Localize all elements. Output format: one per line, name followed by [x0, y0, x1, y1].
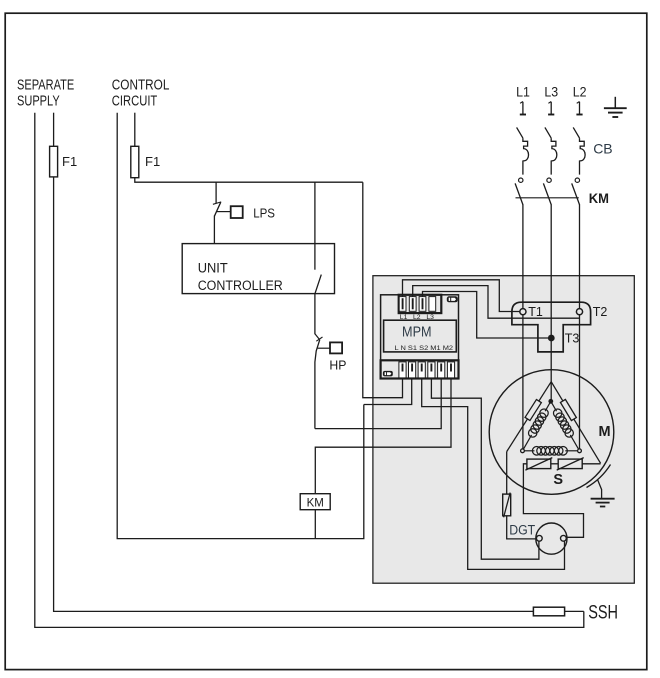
wire LPS to pressure element — [217, 211, 231, 213]
label L1 L2 L3 pins — [400, 314, 434, 321]
wire controller out to HP — [314, 293, 316, 334]
svg-text:KM: KM — [589, 190, 609, 206]
wire internal protector right leg — [551, 382, 600, 464]
svg-text:KM: KM — [307, 497, 324, 509]
wire motor frame to earth — [587, 465, 611, 499]
MPM top terminal strip — [399, 295, 442, 313]
label KM — [307, 497, 324, 509]
motor M body — [489, 370, 614, 495]
wire KM linkage bar — [516, 197, 579, 199]
svg-text:T3: T3 — [565, 332, 580, 346]
wire thermistor to DGT left terminal — [507, 516, 536, 539]
wire control-circuit right line upper — [134, 113, 136, 147]
svg-text:MPM: MPM — [402, 324, 432, 341]
label F1 — [145, 154, 160, 169]
fuse F1 (control circuit) — [131, 146, 139, 177]
unit controller box U1 — [182, 244, 334, 294]
motor winding bottom (coil) — [523, 447, 580, 456]
svg-text:SUPPLY: SUPPLY — [17, 94, 60, 110]
ground (motor frame) — [591, 499, 615, 507]
thermistor S element 2 — [557, 458, 584, 471]
pressure switch LPS element — [231, 206, 243, 218]
winding left vertex — [521, 449, 525, 453]
label MPM — [402, 324, 432, 341]
circuit breaker CB pole L1 — [517, 127, 529, 174]
MPM bottom connector icon — [383, 371, 393, 377]
compressor terminal box (shaded enclosure) — [373, 276, 634, 584]
wire phase L2 to T2 and motor — [579, 204, 581, 451]
circuit breaker CB pole L2 — [573, 127, 585, 174]
svg-text:L1: L1 — [516, 84, 530, 99]
label L N S1 S2 M1 M2 — [395, 345, 454, 352]
MPM top terminal slot 2 — [409, 297, 416, 312]
svg-text:L N S1 S2 M1 M2: L N S1 S2 M1 M2 — [395, 345, 454, 352]
svg-text:T2: T2 — [593, 305, 608, 319]
wire protector leg to discharge thermistor — [506, 452, 508, 495]
svg-text:F1: F1 — [145, 154, 160, 169]
MPM bottom terminal slot 3 — [418, 362, 425, 378]
wire sensors middle link — [551, 463, 558, 465]
motor winding right (coil) — [551, 401, 580, 451]
terminal T2 — [576, 309, 582, 315]
wire rail drop to MPM L terminal — [363, 182, 403, 398]
svg-text:F1: F1 — [62, 154, 77, 169]
wire sensors right link — [582, 463, 600, 465]
MPM bottom terminal slot 4 — [428, 362, 435, 378]
MPM top connector icon — [447, 296, 458, 302]
wire separate-supply right line upper — [53, 113, 55, 147]
label T3 — [565, 332, 580, 346]
label S — [553, 472, 563, 488]
protector element right — [560, 399, 576, 420]
motor winding left (coil) — [523, 401, 551, 451]
label HP — [329, 357, 346, 372]
wire control line to main rail — [135, 178, 363, 183]
protector element left — [525, 400, 541, 421]
gauge DGT body — [536, 523, 567, 554]
svg-text:SEPARATE: SEPARATE — [17, 78, 74, 94]
svg-text:HP: HP — [329, 357, 346, 372]
terminal T1 — [520, 309, 526, 315]
contactor KM pole L2 — [572, 178, 580, 205]
wire separate-supply left line (to SSH return) — [35, 113, 584, 628]
MPM top terminal slot 4 — [429, 297, 436, 312]
wire phase L1 to T1 and motor — [522, 204, 524, 451]
terminal T3 junction — [548, 335, 555, 342]
wire MPM L2 sense to T2 — [413, 286, 580, 319]
label M — [599, 424, 611, 440]
switch unit-controller contact — [315, 275, 321, 294]
thermistor discharge element — [503, 493, 511, 518]
MPM bottom terminal slot 6 — [447, 362, 454, 378]
svg-text:LPS: LPS — [253, 205, 275, 220]
wire MPM S1 to DGT right terminal — [422, 378, 565, 569]
contactor coil KM — [300, 494, 330, 510]
MPM bottom terminal slot 1 — [399, 362, 406, 378]
MPM bottom terminal slot 5 — [438, 362, 445, 378]
circuit breaker CB pole L3 — [545, 127, 557, 174]
svg-text:CONTROLLER: CONTROLLER — [198, 278, 283, 293]
svg-text:L3: L3 — [544, 84, 558, 99]
label F1 — [62, 154, 77, 169]
label T1 — [528, 305, 543, 319]
wire MPM L3 sense to T3 — [423, 292, 552, 339]
wire MPM L1 sense to T1 — [403, 280, 520, 312]
wire MPM S2 to DGT left terminal — [431, 378, 539, 559]
fuse F1 (separate supply) — [50, 146, 58, 177]
svg-text:SSH: SSH — [588, 602, 618, 623]
svg-text:UNIT: UNIT — [198, 261, 228, 276]
label LPS — [253, 205, 275, 220]
label UNIT CONTROLLER — [198, 261, 283, 294]
winding right vertex — [578, 449, 582, 453]
MPM inner label box — [384, 320, 457, 352]
DGT right terminal — [561, 535, 567, 541]
svg-text:CB: CB — [593, 141, 612, 157]
thermistor S element 1 — [525, 458, 552, 471]
svg-text:DGT: DGT — [509, 522, 535, 537]
wire SSH to supply — [565, 610, 584, 612]
protection module MPM outer box — [381, 295, 459, 379]
label KM — [589, 190, 609, 206]
wire control-circuit left line (neutral return) — [117, 113, 364, 539]
label T2 — [593, 305, 608, 319]
MPM top terminal slot 3 — [419, 297, 426, 312]
node L1 supply terminal — [516, 84, 530, 114]
svg-text:T1: T1 — [528, 305, 543, 319]
switch LPS contact — [213, 202, 221, 244]
wire HP to pressure element — [318, 347, 330, 349]
svg-text:CIRCUIT: CIRCUIT — [112, 94, 158, 110]
node L2 supply terminal — [573, 84, 587, 114]
contactor KM pole L1 — [515, 178, 523, 205]
heater SSH element — [533, 607, 564, 616]
wire KM coil to neutral — [314, 510, 316, 539]
wire controller feed drop — [314, 182, 316, 270]
MPM top terminal slot 1 — [399, 297, 406, 312]
label CB — [593, 141, 612, 157]
node SEPARATE SUPPLY label — [17, 78, 74, 110]
wire MPM N terminal drop — [364, 378, 412, 404]
terminal plate outline — [512, 302, 591, 352]
DGT left terminal — [536, 535, 542, 541]
wire sensors left link — [523, 464, 583, 538]
winding apex junction — [548, 399, 553, 404]
wire HP to MPM M1 — [315, 378, 441, 428]
MPM bottom terminal strip — [381, 360, 459, 378]
svg-text:L2: L2 — [573, 84, 587, 99]
switch HP contact — [315, 334, 323, 429]
MPM bottom terminal slot 2 — [409, 362, 416, 378]
svg-text:M: M — [599, 424, 611, 440]
node L3 supply terminal — [544, 84, 558, 114]
wire MPM M2 to KM coil — [315, 378, 451, 493]
contactor KM pole L3 — [543, 178, 551, 205]
svg-text:CONTROL: CONTROL — [112, 78, 170, 94]
node CONTROL CIRCUIT label — [112, 78, 170, 110]
wire separate-supply right line lower (to SSH) — [54, 177, 534, 612]
pressure switch HP element — [330, 342, 342, 353]
wire LPS branch drop — [215, 182, 217, 203]
wire phase L3 to T3 and winding apex — [550, 204, 552, 401]
label DGT — [509, 522, 535, 537]
ground (supply earth) — [604, 97, 627, 117]
wire internal protector left leg — [507, 382, 552, 452]
svg-text:S: S — [553, 472, 563, 488]
label SSH — [588, 602, 618, 623]
